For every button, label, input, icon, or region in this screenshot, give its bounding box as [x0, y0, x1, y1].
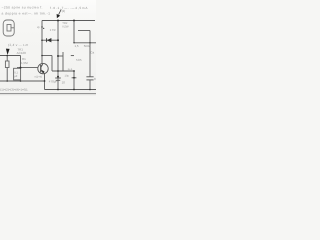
wire bottom of U [52, 70, 74, 72]
wire switch down [89, 31, 91, 43]
svg-text:0,1: 0,1 [14, 72, 18, 75]
wire base [17, 67, 38, 69]
svg-text:1,5: 1,5 [75, 44, 79, 48]
resistor R1 box [5, 61, 9, 68]
bottom border rule [0, 93, 96, 95]
wire diode branch [42, 39, 58, 41]
wire center vertical [57, 21, 59, 90]
battery plate [71, 55, 74, 57]
transistor TR1 base bar [40, 65, 42, 72]
svg-text:µF: µF [14, 75, 18, 78]
svg-text:505: 505 [76, 58, 82, 62]
wire mid right rail [74, 42, 96, 44]
svg-text:1+1·: 1+1· [68, 68, 74, 71]
wire left input [0, 55, 21, 57]
svg-text:Ca: Ca [90, 51, 94, 55]
wire right vertical [89, 43, 91, 90]
wire emitter [44, 74, 46, 81]
wire branch to C4 [58, 55, 63, 57]
wire left vertical R1 bottom [6, 68, 8, 82]
wire left vertical R1 top [6, 56, 8, 62]
junction dots [6, 20, 90, 91]
transistor TR1 circle [38, 63, 48, 73]
earphone symbol link [11, 27, 14, 29]
wire stub to U [42, 55, 52, 57]
svg-text:500Ω: 500Ω [84, 44, 92, 48]
svg-text:a doppia e est—. im tim.-1: a doppia e est—. im tim.-1 [2, 12, 51, 16]
wire switch arm [78, 30, 90, 32]
capacitor C2 box [14, 68, 21, 80]
svg-text:1,5M: 1,5M [21, 61, 28, 65]
svg-text:0,5W: 0,5W [62, 26, 69, 29]
wire top rail [42, 20, 95, 22]
wire collector vertical [41, 21, 43, 64]
wire battery bottom [73, 71, 75, 90]
svg-text:f.6.1,7—..—4,5mA: f.6.1,7—..—4,5mA [50, 6, 88, 10]
transistor TR1 emitter diag [41, 70, 44, 73]
diode D1 [47, 38, 52, 42]
wire right of box [62, 52, 64, 71]
wire down from input [20, 56, 22, 69]
battery lower plate [72, 77, 77, 79]
wire ground step [44, 81, 46, 90]
svg-text:a): a) [37, 25, 40, 29]
svg-text:10µ: 10µ [65, 75, 70, 78]
svg-text:(k): (k) [62, 9, 65, 13]
transistor TR1 collector diag [41, 64, 43, 67]
svg-text:470µF: 470µF [49, 80, 58, 84]
wire battery top [73, 21, 75, 43]
probe arrow K [59, 9, 62, 14]
earphone symbol inner [7, 25, 11, 32]
svg-text:e(1+b): e(1+b) [35, 76, 43, 79]
svg-text:10: 10 [62, 81, 66, 85]
capacitor C3 470uF plates [55, 77, 61, 79]
wire bottom ground rail [45, 89, 97, 91]
text annotations [0, 6, 96, 92]
probe arrow left [6, 49, 10, 55]
svg-text:2 TR: 2 TR [50, 29, 56, 32]
wire left ground rail [0, 80, 45, 82]
svg-text:(1)=(2)=(3)=(4)=1+0(1: (1)=(2)=(3)=(4)=1+0(1 [0, 88, 28, 91]
svg-text:~250 spire su nucleo f.: ~250 spire su nucleo f. [2, 6, 43, 10]
svg-text:AC128: AC128 [17, 51, 27, 55]
capacitor C5 right plates [86, 76, 93, 78]
svg-text:(1,4 v — t.m: (1,4 v — t.m [8, 43, 28, 47]
wire left of box [51, 56, 53, 72]
earphone symbol outer [3, 20, 14, 36]
transistor TR1 emitter arrow [42, 70, 45, 74]
